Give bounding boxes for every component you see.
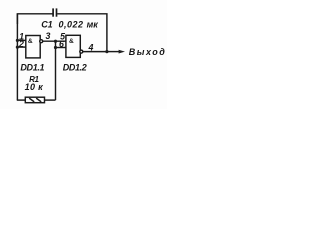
svg-text:0,022: 0,022 bbox=[59, 20, 84, 30]
pin number 4 bbox=[88, 42, 94, 52]
svg-text:Выход: Выход bbox=[129, 47, 167, 57]
op-amp U2: gate DD1.2 body bbox=[66, 35, 80, 57]
svg-text:&: & bbox=[28, 38, 33, 45]
svg-text:DD1.2: DD1.2 bbox=[63, 62, 87, 72]
capacitor C1 bbox=[53, 8, 56, 16]
value label C1 bbox=[41, 20, 52, 30]
wire: pin 2 stub bbox=[17, 46, 26, 48]
svg-text:C1: C1 bbox=[41, 20, 52, 30]
svg-text:мк: мк bbox=[87, 20, 99, 30]
pin number 2 bbox=[18, 39, 24, 49]
designator DD1.1 bbox=[20, 62, 44, 72]
wire: bottom left to R1 bbox=[17, 99, 26, 101]
designator R1 bbox=[29, 75, 39, 84]
wire: R1 to riser bbox=[45, 99, 56, 101]
wire: top feedback left segment bbox=[17, 14, 52, 24]
pin number 3 bbox=[46, 31, 51, 41]
svg-text:6: 6 bbox=[59, 39, 64, 49]
op-amp U1: gate DD1.1 inversion bubble pin 3 bbox=[40, 40, 43, 43]
wire: top feedback right segment bbox=[57, 14, 107, 52]
wire: feedback riser from R1 bbox=[55, 41, 57, 100]
label: & of DD1.1 bbox=[28, 38, 33, 45]
pin number 1 bbox=[19, 32, 24, 42]
pin number 5 bbox=[60, 32, 65, 42]
svg-text:&: & bbox=[69, 38, 74, 45]
svg-text:DD1.1: DD1.1 bbox=[20, 62, 44, 72]
pin number 6 bbox=[59, 39, 64, 49]
value label 0,022 mk bbox=[59, 20, 99, 30]
svg-text:3: 3 bbox=[46, 31, 51, 41]
net label Vykhod output bbox=[129, 47, 167, 57]
resistor R1 body bbox=[25, 97, 44, 103]
node: junction on pin 1 bbox=[16, 39, 19, 42]
wire: left input bus bbox=[16, 14, 18, 101]
resistor R1 power-rating strokes bbox=[29, 98, 41, 102]
node: output junction bbox=[105, 50, 108, 53]
designator DD1.2 bbox=[63, 62, 87, 72]
svg-text:10 к: 10 к bbox=[25, 82, 43, 92]
node: junction pin6/riser bbox=[54, 46, 57, 49]
node: junction on pin 2 bbox=[16, 46, 19, 49]
wire: pin 3 to pins 5-6 bbox=[43, 40, 66, 42]
svg-text:4: 4 bbox=[88, 42, 94, 52]
op-amp U2: gate DD1.2 inversion bubble pin 4 bbox=[80, 50, 83, 53]
node: junction pin3/riser bbox=[54, 40, 57, 43]
wire: pin 1 stub bbox=[17, 39, 26, 41]
wire: pin 4 output bbox=[83, 51, 107, 53]
wire: pin 6 stub bbox=[56, 47, 67, 49]
op-amp U1: gate DD1.1 body bbox=[26, 36, 40, 58]
value label 10 k bbox=[25, 82, 43, 92]
svg-text:2: 2 bbox=[18, 39, 24, 49]
wire: output arrow to Vykhod bbox=[107, 50, 125, 54]
label: & of DD1.2 bbox=[69, 38, 74, 45]
